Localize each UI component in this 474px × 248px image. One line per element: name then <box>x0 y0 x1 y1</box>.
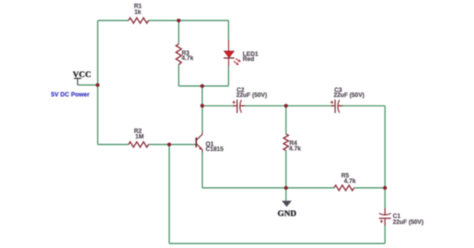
svg-text:4.7k: 4.7k <box>344 178 356 185</box>
svg-text:VCC: VCC <box>73 69 91 79</box>
svg-text:4.7k: 4.7k <box>289 146 301 153</box>
svg-text:C1815: C1815 <box>206 146 225 153</box>
svg-text:GND: GND <box>278 208 297 218</box>
svg-text:22uF (50V): 22uF (50V) <box>334 92 365 99</box>
svg-text:Red: Red <box>243 56 255 63</box>
svg-text:22uF (50V): 22uF (50V) <box>236 92 267 99</box>
svg-text:4.7k: 4.7k <box>182 55 194 62</box>
svg-text:22uF (50V): 22uF (50V) <box>393 219 424 226</box>
svg-text:1M: 1M <box>135 133 143 140</box>
svg-text:1k: 1k <box>134 9 141 16</box>
svg-text:5V DC Power: 5V DC Power <box>51 91 90 98</box>
